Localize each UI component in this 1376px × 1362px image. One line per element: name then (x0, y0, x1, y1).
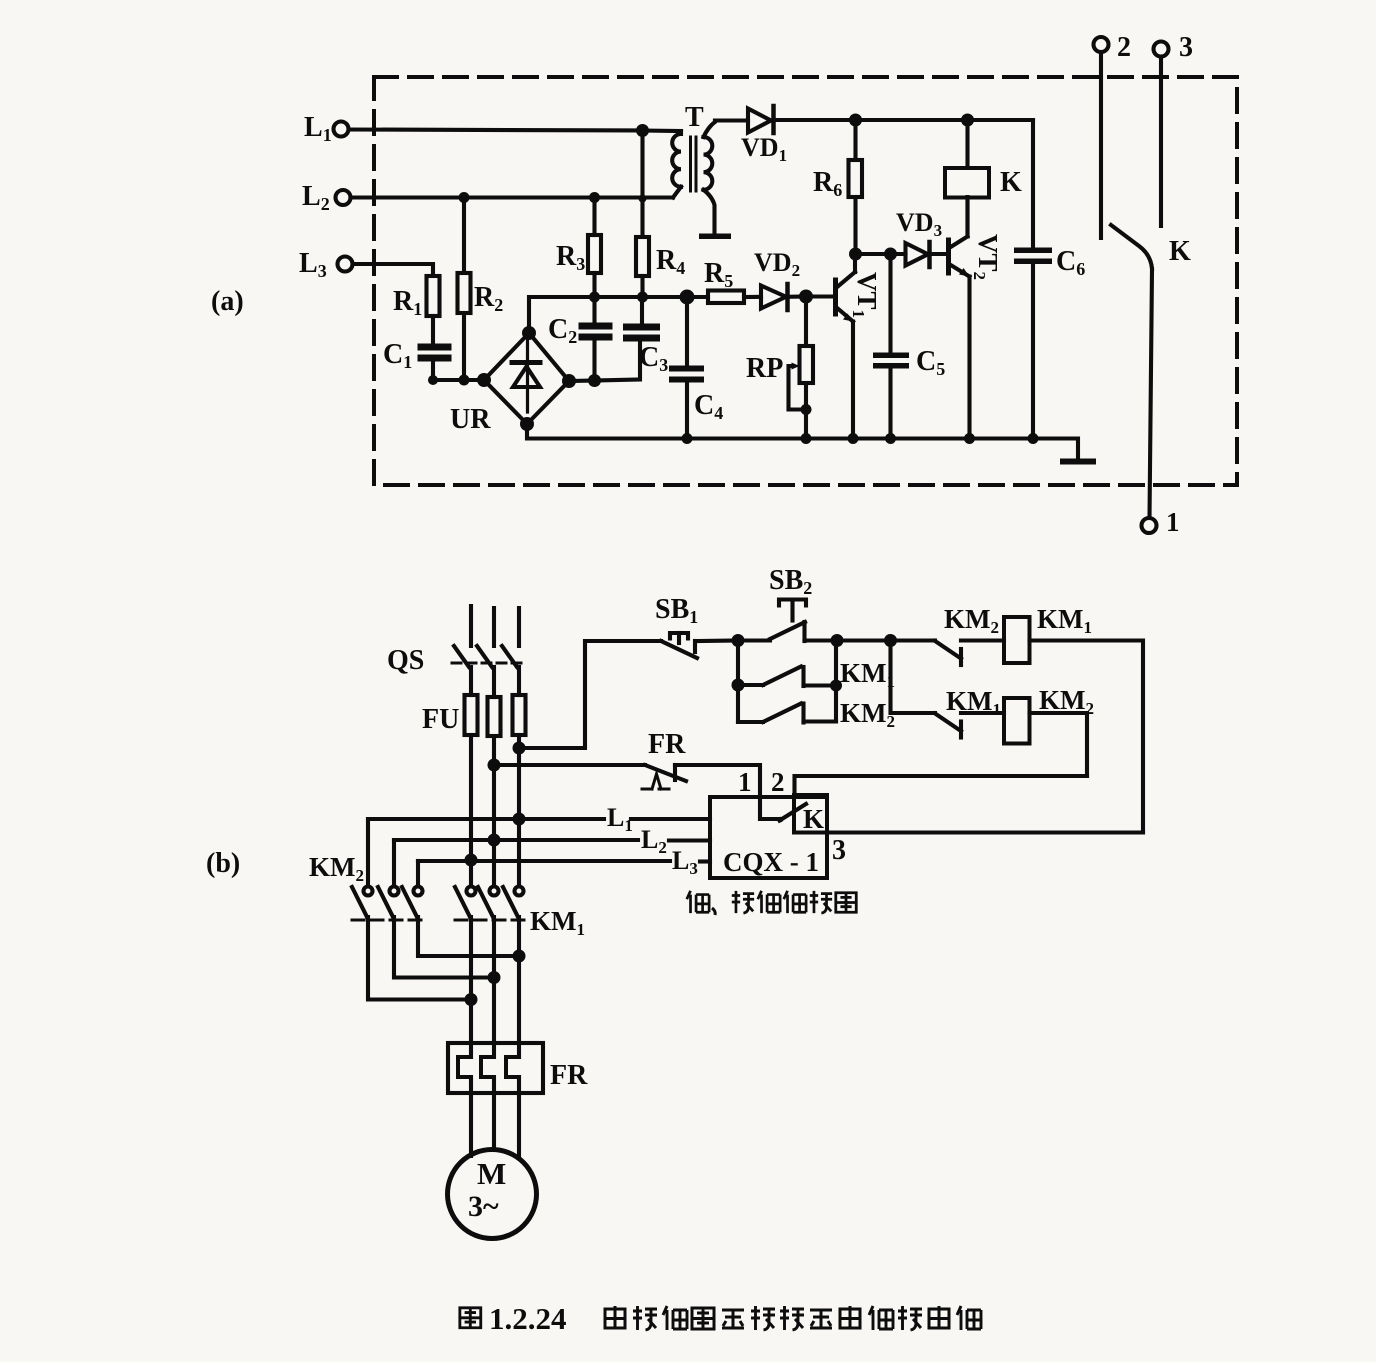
wire (row L3 to CQX) (418, 859, 710, 864)
node C1-bottom (428, 375, 438, 385)
capacitor C5 (888, 254, 892, 353)
fuse FU 2 (488, 697, 501, 736)
wire (697, 638, 738, 643)
node RP-wiper (801, 404, 812, 415)
node rowL3-phase1 (465, 854, 478, 867)
switch QS pole 2 (477, 646, 492, 667)
node latch-join (830, 680, 842, 692)
svg-text:FU: FU (422, 704, 459, 735)
svg-text:T: T (685, 102, 704, 133)
node SB1-out (732, 634, 745, 647)
svg-text:3: 3 (832, 835, 846, 866)
svg-text:QS: QS (387, 645, 424, 676)
terminal 2 (1094, 37, 1109, 52)
node VD2-VT1-base (799, 290, 813, 304)
caption 图 1.2.24 (460, 1301, 567, 1336)
wire (517, 1077, 521, 1158)
terminal L1 (334, 122, 349, 137)
contact KM1 (interlock NC) (935, 714, 961, 732)
wire (961, 711, 1004, 715)
contact KM1 main 2 (490, 887, 499, 896)
wire (1159, 57, 1163, 227)
svg-text:(b): (b) (206, 848, 240, 879)
coil KM2 (1004, 698, 1030, 744)
contact KM2 main 1 (364, 887, 373, 896)
transistor VT1 (806, 294, 834, 298)
svg-text:K: K (803, 804, 824, 834)
svg-text:UR: UR (450, 404, 491, 435)
contact KM2 main 2 (390, 887, 399, 896)
svg-text:2: 2 (1117, 32, 1131, 63)
svg-text:(a): (a) (211, 286, 244, 317)
resistor R4 (640, 199, 644, 237)
wire (961, 638, 1004, 642)
wire (row L2 to CQX) (394, 838, 710, 843)
node R5-C4 (680, 290, 695, 305)
wire (control feed) (519, 641, 661, 748)
coil KM1 (1004, 617, 1030, 663)
button SB1 (661, 641, 697, 658)
svg-text:RP: RP (746, 353, 783, 384)
wire (phase line 1 upper) (469, 606, 473, 646)
wire (774, 118, 856, 122)
capacitor C1 (418, 344, 452, 351)
wire (node bus) (529, 297, 687, 333)
ground (transformer secondary) (699, 234, 731, 240)
wire (804, 719, 837, 723)
svg-text:FR: FR (648, 729, 686, 760)
wire (phase line 2 upper) (492, 608, 496, 646)
wire (469, 667, 473, 695)
node crossover3 (513, 950, 526, 963)
terminal L3 (338, 257, 353, 272)
wire (856, 252, 891, 256)
contact KM2 (interlock NC) (891, 638, 936, 642)
node latch-mid (732, 679, 745, 692)
bridge rectifier UR (484, 333, 569, 424)
capacitor C6 (1031, 120, 1035, 248)
node rail-VT1e (848, 433, 859, 444)
switch QS pole 1 (454, 646, 469, 667)
svg-text:2: 2 (771, 767, 785, 797)
svg-text:1: 1 (738, 767, 752, 797)
wire (856, 118, 1034, 122)
wire (351, 195, 674, 199)
node C2-bottom (588, 374, 601, 387)
node C2-bus (589, 292, 600, 303)
wire (494, 763, 645, 767)
node crossover1 (465, 993, 478, 1006)
wire (KM2 feeder 2) (392, 840, 396, 887)
node crossover2 (488, 971, 501, 984)
fuse FU 3 (513, 695, 526, 735)
node rail-C5 (885, 433, 896, 444)
switch QS pole 3 (502, 646, 517, 667)
resistor R6 (853, 120, 857, 160)
relay coil K (965, 120, 969, 168)
node control-tap (513, 742, 526, 755)
wire (640, 131, 644, 200)
wire (1099, 52, 1103, 238)
node rail-RP (801, 433, 812, 444)
wire (643, 128, 682, 133)
svg-text:1.2.24: 1.2.24 (489, 1301, 567, 1336)
wire (675, 765, 779, 819)
box CQX-1 (710, 797, 827, 878)
fuse FU 1 (465, 695, 478, 735)
capacitor C3 (640, 297, 644, 324)
contact KM2 (self-hold) (738, 720, 763, 724)
terminal 1 (1142, 518, 1157, 533)
wire (492, 667, 496, 697)
contact KM1 main 1 (467, 887, 476, 896)
node R3-top (589, 192, 600, 203)
wire (terminal 2 lead) (795, 776, 1088, 795)
wire (bottom rail of section a) (527, 424, 1078, 459)
ground (section a rail) (1060, 459, 1096, 465)
node rowL1-phase3 (513, 813, 526, 826)
diode VD1 (715, 118, 748, 122)
caption 电动机固定旋转方向控制电路 (605, 1306, 981, 1330)
wire (phase line 2 lower) (492, 917, 496, 1057)
node FR-tap (488, 759, 501, 772)
contact KM1 (self-hold) (738, 683, 763, 687)
wire (804, 683, 837, 687)
linkage KM2 (352, 919, 428, 922)
wire (latch right riser) (834, 641, 838, 722)
wire (KM2 feeder 1) (366, 819, 370, 887)
wire (569, 378, 595, 383)
terminal 3 (1154, 42, 1169, 57)
wire (805, 638, 891, 642)
node rail-C6 (1028, 433, 1039, 444)
contact K (inside CQX-1) (780, 804, 807, 821)
wire (1030, 641, 1144, 833)
wire (KM2 crossover 1) (368, 917, 471, 1000)
svg-text:CQX - 1: CQX - 1 (723, 847, 819, 877)
node rail-C4 (682, 433, 693, 444)
node R2-bottom (459, 375, 470, 386)
wire (353, 264, 434, 276)
terminal L2 (336, 190, 351, 205)
wire (492, 1077, 496, 1150)
linkage KM1 (455, 919, 531, 922)
text 错、断相保护器 (687, 891, 856, 915)
wire (KM2 feeder 3) (416, 861, 420, 887)
thermal contact FR (645, 765, 686, 781)
capacitor C4 (685, 297, 689, 366)
svg-text:K: K (1169, 236, 1191, 267)
wire (349, 130, 643, 131)
potentiometer RP (804, 297, 808, 347)
node rowL2-phase2 (488, 834, 501, 847)
switch K (changeover contact) (1111, 225, 1152, 269)
transformer T (672, 131, 681, 187)
node VT1-collector (849, 248, 862, 261)
motor M (448, 1150, 537, 1239)
node K-coil-top (961, 114, 974, 127)
contact KM1 main 3 (515, 887, 524, 896)
wire (433, 378, 484, 382)
wire (phase line 3 upper) (517, 608, 521, 646)
transistor VT2 (946, 240, 951, 273)
node SB2-out (831, 634, 844, 647)
wire (terminal 3 lead) (827, 830, 1143, 834)
resistor R3 (592, 198, 596, 236)
node coil-branch (884, 634, 897, 647)
switch QS linkage (452, 662, 526, 665)
dashed enclosure box of protector unit (374, 77, 1237, 485)
wire (phase line 3 mid) (517, 735, 521, 887)
thermal relay FR heaters (448, 1043, 543, 1093)
svg-text:M: M (477, 1156, 506, 1191)
svg-text:FR: FR (550, 1060, 588, 1091)
svg-text:3~: 3~ (468, 1190, 499, 1223)
resistor R2 (462, 198, 466, 274)
node L1-junction (636, 124, 649, 137)
wire (phase line 1 lower) (469, 917, 473, 1057)
resistor R1 (427, 276, 440, 316)
contact KM2 main 3 (414, 887, 423, 896)
svg-text:3: 3 (1179, 32, 1193, 63)
diode VD2 (761, 286, 786, 309)
node R2-top (459, 192, 470, 203)
node C3-bus (637, 292, 648, 303)
node C5-top (884, 248, 897, 261)
node crossing-dot (639, 195, 647, 203)
wire (row L1 to CQX) (368, 817, 710, 821)
node rail-VT2e (964, 433, 975, 444)
wire (KM2 crossover 3) (418, 917, 519, 956)
wire (517, 667, 521, 695)
svg-text:1: 1 (1166, 507, 1180, 537)
svg-text:K: K (1000, 167, 1022, 198)
capacitor C2 (592, 297, 596, 323)
wire (KM2 crossover 2) (394, 917, 494, 978)
wire (latch dropper) (736, 641, 740, 723)
wire (row2 dropper) (891, 641, 936, 714)
wire (phase line 2 mid) (492, 736, 496, 887)
diode VD3 (906, 243, 929, 266)
resistor R5 (708, 291, 744, 304)
wire (469, 1077, 473, 1156)
wire (1030, 713, 1088, 776)
node R6-top (849, 114, 862, 127)
wire (phase line 3 lower) (517, 917, 521, 1057)
wire (phase line 1 mid) (469, 735, 473, 887)
button SB2 (738, 638, 770, 642)
